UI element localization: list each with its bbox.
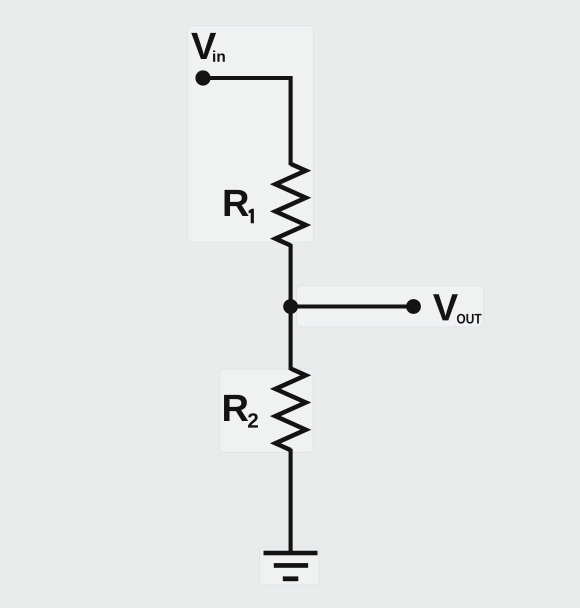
node Vin terminal dot [195, 70, 210, 85]
panel behind ground [260, 548, 320, 585]
panel behind R2 [220, 369, 314, 453]
label Vout [433, 294, 458, 320]
node Vout terminal dot [406, 299, 421, 314]
ground bar 2 [274, 563, 308, 568]
panel behind Vin and R1 [188, 26, 314, 243]
ground bar 1 [264, 551, 318, 556]
ground bar 3 [283, 576, 299, 581]
wire junction to Vout terminal [291, 304, 414, 308]
resistor R1 zigzag [275, 164, 305, 246]
wire Vin horizontal+vertical to R1 [203, 78, 291, 165]
wire junction to R2 [289, 307, 293, 371]
label R2 [224, 395, 248, 421]
panel behind Vout label [297, 286, 484, 328]
label Vin [191, 33, 216, 59]
wire R1 to junction [289, 244, 293, 307]
wire R2 to ground [289, 449, 293, 553]
node junction dot [283, 299, 298, 314]
resistor R2 zigzag [275, 369, 305, 451]
label R1 [225, 190, 249, 216]
